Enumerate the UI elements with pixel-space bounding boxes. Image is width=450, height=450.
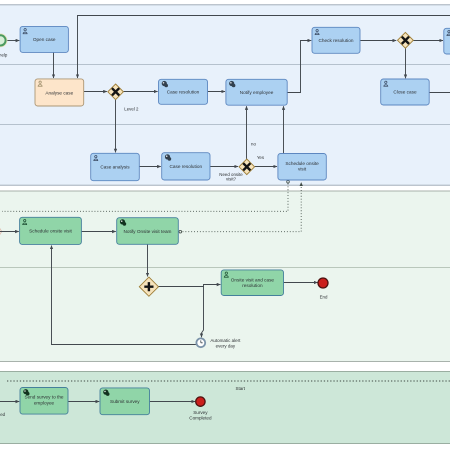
wire: gateway G2 to Case resolution 1 <box>124 91 158 93</box>
svg-text:Start: Start <box>235 386 245 391</box>
task Case resolution 1 <box>159 79 208 104</box>
pool P3 (bottom, green) <box>0 372 450 444</box>
task Notify Onsite visit team <box>117 218 179 245</box>
wire: gateway G4 to Onsite visit task <box>158 285 220 287</box>
wire: left edge into Schedule onsite visit P2 <box>0 231 19 233</box>
task Notify employee <box>226 79 287 105</box>
wire: Check resolution to gateway G1 <box>360 40 396 42</box>
svg-text:Automatic alert: Automatic alert <box>210 338 241 343</box>
wire: Case analysis to Case resolution 2 <box>140 166 161 168</box>
start event S1 <box>0 34 7 47</box>
svg-text:visit: visit <box>298 167 307 172</box>
task Onsite visit and case resolution <box>221 270 283 296</box>
task Case resolution 2 <box>162 153 210 180</box>
svg-text:Send survey to the: Send survey to the <box>24 395 63 400</box>
wire: Schedule onsite visit up to Notify employee <box>283 106 285 153</box>
task Send survey to the employee <box>20 388 68 415</box>
task Analyse case <box>35 79 84 106</box>
svg-text:Submit survey: Submit survey <box>110 399 140 404</box>
svg-text:Notify Onsite visit team: Notify Onsite visit team <box>124 229 172 234</box>
svg-text:Schedule onsite: Schedule onsite <box>285 161 319 166</box>
svg-text:Completed: Completed <box>189 415 212 420</box>
svg-text:End: End <box>320 294 328 299</box>
wire: gateway G3 no branch up to Notify employee <box>246 106 248 159</box>
task at right edge <box>444 28 450 54</box>
gateway G2 (X) <box>108 84 124 100</box>
wire: Onsite visit task to End <box>284 282 318 284</box>
svg-text:ed: ed <box>0 412 5 417</box>
wire: start event to Open case <box>6 40 19 42</box>
wire: Schedule onsite visit P2 to Notify Onsite visit team <box>82 231 116 233</box>
svg-text:Survey: Survey <box>193 410 208 415</box>
wire: Open case down to Analyse case <box>53 53 55 79</box>
wire: long flow from right edge to Analyse case <box>78 16 450 79</box>
svg-text:Level 2: Level 2 <box>124 107 139 112</box>
svg-text:Case analysis: Case analysis <box>100 165 130 170</box>
task Schedule onsite visit P2 <box>20 217 82 244</box>
label Survey Completed <box>189 410 212 420</box>
wire: left edge into Send survey <box>0 401 19 403</box>
end event Survey Completed <box>196 397 205 406</box>
timer event <box>196 338 205 347</box>
svg-text:Analyse case: Analyse case <box>45 90 73 95</box>
task Close case <box>381 79 430 105</box>
wire: gateway G1 down to Close case <box>405 48 407 78</box>
svg-text:Schedule onsite visit: Schedule onsite visit <box>29 229 72 234</box>
svg-text:resolution: resolution <box>242 283 263 288</box>
svg-text:no: no <box>251 141 256 146</box>
task Schedule onsite visit P1 <box>278 154 326 181</box>
message flow M3 across pool P3 <box>7 380 450 382</box>
end event End <box>318 278 328 288</box>
wire: Case resolution 1 to Notify employee <box>208 91 225 93</box>
element fragment at left edge of pool P2 <box>0 227 2 236</box>
svg-text:help: help <box>0 52 8 57</box>
lane divider P1 lane1/lane2 <box>0 64 450 66</box>
pool P2 (middle, pale green) <box>0 191 450 362</box>
svg-text:Case resolution: Case resolution <box>167 89 200 94</box>
wire: Notify employee up to Check resolution <box>287 41 311 93</box>
label Need onsite visit? <box>219 172 243 182</box>
svg-text:visit?: visit? <box>226 177 237 182</box>
svg-text:Check resolution: Check resolution <box>319 38 354 43</box>
svg-text:Case resolution: Case resolution <box>170 164 203 169</box>
label Automatic alert every day <box>210 338 241 349</box>
wire: gateway G3 Yes branch to Schedule onsite visit <box>255 166 277 168</box>
svg-text:Open case: Open case <box>33 37 56 42</box>
task Case analysis <box>91 153 140 180</box>
lane divider P2 <box>0 267 450 269</box>
pool P1 (top, blue) <box>0 5 450 185</box>
wire: timer loop back to Schedule onsite visit P2 <box>52 246 196 345</box>
wire: gateway G4 corner down to timer <box>202 287 204 338</box>
message flow M1 from Schedule onsite visit P1 down-left <box>2 181 289 212</box>
svg-text:Close case: Close case <box>393 90 417 95</box>
svg-text:Onsite visit and case: Onsite visit and case <box>231 277 275 282</box>
gateway G4 (+) <box>139 277 158 296</box>
wire: Send survey to Submit survey <box>68 401 99 403</box>
wire: gateway G1 to right-edge task <box>413 40 443 42</box>
gateway G3 (X) <box>239 159 255 175</box>
message flow M2 from Notify Onsite visit team up to Schedule onsite visit P1 <box>179 182 301 233</box>
svg-text:employee: employee <box>34 400 55 405</box>
svg-text:every day: every day <box>216 343 236 348</box>
wire: gateway G2 down to Case analysis <box>115 100 117 153</box>
svg-text:Yes: Yes <box>257 155 265 160</box>
gateway G1 (X) <box>398 32 414 48</box>
wire: Submit survey to Survey Completed <box>150 401 195 403</box>
wire: Case resolution 2 to gateway G3 <box>210 166 238 168</box>
task Submit survey <box>100 388 150 415</box>
task Open case <box>20 26 68 52</box>
task Check resolution <box>312 27 360 53</box>
svg-text:Notify employee: Notify employee <box>240 90 274 95</box>
lane divider P1 lane2/lane3 <box>0 124 450 126</box>
wire: Analyse case to gateway G2 <box>84 91 107 93</box>
wire: Close case to right edge <box>429 92 450 94</box>
wire: Notify Onsite visit team down to gateway G4 <box>147 244 149 276</box>
